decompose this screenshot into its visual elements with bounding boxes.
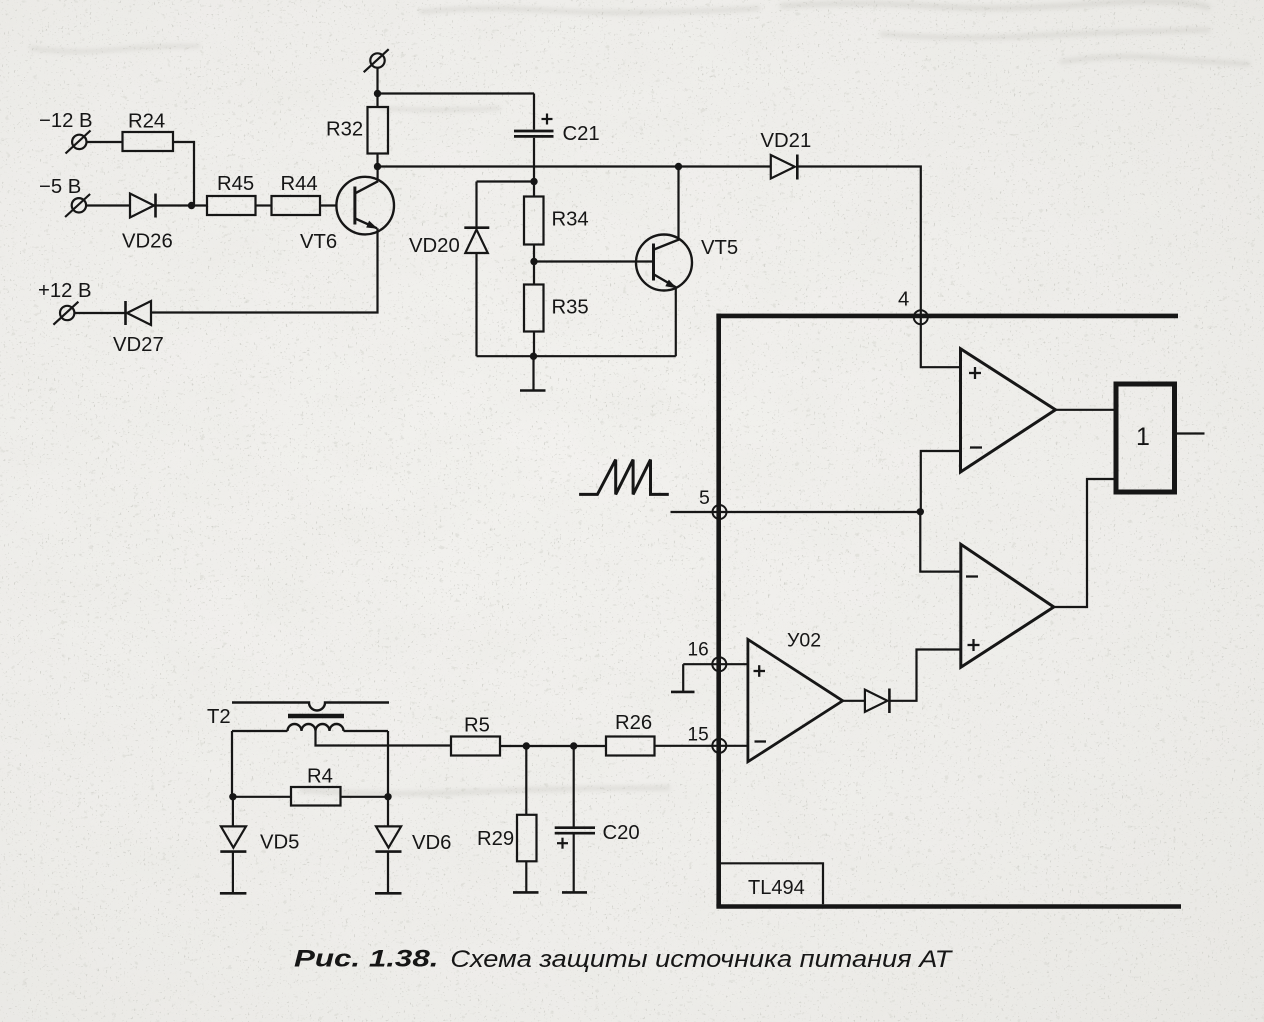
resistor R24 (123, 132, 174, 151)
wire VT5 collector (677, 167, 679, 241)
capacitor C20 (555, 746, 595, 892)
wire (173, 142, 194, 206)
wire (797, 167, 921, 311)
resistor R35 (524, 285, 544, 357)
node pin 15 (654, 739, 748, 753)
terminal -12V (66, 131, 91, 154)
ground under R29 (513, 891, 539, 894)
resistor R4 (232, 787, 388, 806)
svg-text:Схема защиты источника питания: Схема защиты источника питания АТ (450, 946, 953, 972)
terminal -5V (65, 194, 90, 217)
wire (320, 204, 337, 206)
svg-text:R32: R32 (326, 119, 363, 141)
diode after Y02 (865, 689, 890, 714)
svg-text:R24: R24 (128, 111, 165, 133)
wire right winding leg (387, 731, 389, 797)
svg-text:T2: T2 (207, 706, 231, 728)
wire comparator 2 output to block (1054, 479, 1114, 607)
resistor R29 (517, 746, 537, 892)
wire VT6 collector (377, 167, 379, 182)
ground at pin 16 (671, 664, 695, 692)
svg-text:VD26: VD26 (122, 231, 173, 253)
comparator U1 (961, 349, 1056, 472)
svg-text:R34: R34 (552, 209, 589, 231)
wire (533, 245, 535, 285)
wire bottom of protection cell (477, 355, 676, 357)
junction (374, 163, 381, 170)
svg-text:Рис. 1.38.: Рис. 1.38. (294, 945, 438, 972)
resistor R34 (524, 182, 544, 245)
svg-text:4: 4 (898, 289, 909, 311)
junction (374, 90, 381, 97)
junction (523, 742, 530, 749)
transformer T2 core (288, 714, 344, 719)
svg-text:R35: R35 (552, 297, 589, 319)
wire to C21 top (378, 92, 535, 94)
transformer T2 secondary (288, 724, 344, 731)
junction (229, 793, 236, 800)
capacitor C21 (514, 94, 554, 182)
wire (87, 141, 123, 143)
op-amp Y02 (748, 639, 843, 761)
svg-text:C20: C20 (603, 822, 640, 844)
svg-text:R5: R5 (464, 715, 490, 737)
terminal +12V (53, 302, 78, 325)
wire left winding leg (231, 731, 233, 797)
ground under C20 (562, 891, 587, 894)
wire (256, 204, 272, 206)
diode VD26 (130, 194, 207, 218)
svg-text:−12 В: −12 В (39, 110, 93, 132)
diode VD6 (375, 797, 401, 894)
node pin 5 (671, 505, 921, 519)
diode VD21 (771, 155, 798, 180)
svg-text:VT6: VT6 (300, 231, 337, 253)
junction (384, 793, 391, 800)
wire center tap to R5 (316, 731, 452, 746)
resistor R45 (207, 196, 256, 215)
zener diode VD20 (464, 182, 489, 357)
resistor R32 (368, 107, 389, 154)
wire (376, 68, 378, 107)
resistor R26 (606, 737, 655, 756)
node pin 16 (683, 657, 748, 671)
svg-text:−5 В: −5 В (39, 176, 81, 198)
resistor R44 (272, 196, 321, 215)
wire (232, 730, 388, 732)
wire main horizontal net (378, 165, 771, 167)
svg-text:VD6: VD6 (412, 832, 451, 854)
wire (74, 312, 125, 314)
svg-text:+12 В: +12 В (38, 280, 92, 302)
ground (520, 356, 546, 390)
wire comparator 2 - input (920, 512, 961, 572)
svg-text:1: 1 (1136, 423, 1150, 451)
svg-text:R4: R4 (307, 766, 333, 788)
svg-text:У02: У02 (787, 630, 821, 652)
wire output (1177, 432, 1205, 434)
svg-text:16: 16 (688, 640, 709, 661)
resistor R5 (451, 737, 500, 756)
faint page bleed-through smudges (30, 1, 1250, 793)
wire (376, 154, 378, 167)
svg-text:R44: R44 (281, 173, 318, 195)
wire (843, 700, 865, 702)
junction (530, 353, 537, 360)
wire to comparator 2 + input (889, 650, 960, 701)
ground under VD5 (220, 892, 247, 895)
svg-text:VD5: VD5 (260, 832, 299, 854)
terminal top (R32) (364, 49, 389, 72)
junction (530, 178, 537, 185)
logic block 1 (1116, 384, 1175, 492)
wire (86, 204, 130, 206)
svg-text:VD21: VD21 (761, 130, 812, 152)
wire VT5 emitter (675, 288, 677, 356)
TL494 label box (720, 863, 823, 904)
wire VT5 base (534, 260, 654, 262)
svg-text:VD27: VD27 (113, 334, 164, 356)
wire (477, 180, 535, 182)
wire VT6 emitter (151, 228, 378, 312)
junction (188, 202, 195, 209)
wire (500, 745, 606, 747)
svg-text:R45: R45 (217, 173, 254, 195)
transistor VT5 (636, 235, 692, 291)
diode VD5 (220, 797, 246, 894)
transformer T2 primary (232, 703, 389, 711)
wire to comparator 1 + input (921, 324, 961, 367)
wire comparator 1 - input (921, 451, 961, 512)
svg-text:VT5: VT5 (701, 237, 738, 259)
junction (917, 508, 924, 515)
svg-text:R26: R26 (615, 712, 652, 734)
svg-text:15: 15 (688, 725, 709, 746)
TL494 block outline (716, 314, 1181, 907)
svg-text:TL494: TL494 (748, 877, 805, 899)
node pin 4 (914, 310, 928, 324)
wire (1056, 409, 1114, 411)
svg-text:VD20: VD20 (409, 235, 460, 257)
junction (530, 258, 537, 265)
transistor VT6 (336, 177, 394, 235)
junction (675, 163, 682, 170)
ground under VD6 (375, 892, 402, 895)
svg-text:C21: C21 (563, 123, 600, 145)
svg-text:R29: R29 (477, 828, 514, 850)
junction (570, 742, 577, 749)
comparator U2 (961, 544, 1054, 667)
svg-text:5: 5 (699, 487, 710, 509)
diode VD27 (126, 301, 152, 325)
sawtooth waveform (579, 460, 669, 495)
